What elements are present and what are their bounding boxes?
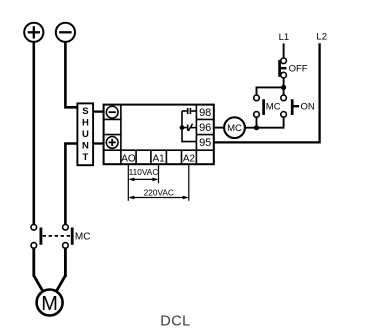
wire SHUNT to controller minus terminal [93,110,105,112]
wire terminal 96 to MC coil [214,127,224,129]
svg-text:110VAC: 110VAC [129,167,159,177]
junction node below MC auxiliary contact [254,125,259,130]
MC auxiliary holding contact [254,95,281,117]
contactor coil MC [224,117,245,138]
svg-text:M: M [41,293,58,315]
wire right contact to motor [56,248,65,292]
svg-text:ON: ON [301,102,315,113]
shunt resistor box SHUNT [77,103,93,165]
motor M [37,290,63,316]
dimension arrow 220VAC [129,187,189,199]
pushbutton ON normally open [281,95,315,117]
battery positive terminal + [24,23,43,42]
internal NC contact to 96 [182,124,196,131]
wire from + terminal down to MC main contact [32,42,35,225]
wire L1 down to OFF button [283,43,285,58]
dimension extension line below A1 [158,164,160,183]
MC main contact right pole [63,225,73,249]
svg-text:AO: AO [121,153,136,164]
dimension extension line below AO [127,164,129,201]
controller unit box U1 [104,105,214,165]
internal NO contact to 98 [182,108,196,114]
wire from SHUNT left side down to MC main contact [65,144,78,225]
internal relay common bus wire [182,111,196,142]
svg-text:L1: L1 [279,32,290,43]
wire L2 down and left to terminal 95 [214,43,320,142]
dimension arrow 110VAC [129,167,159,182]
wire left contact to motor [34,248,43,292]
svg-text:A2: A2 [183,153,196,164]
controller minus input terminal [106,106,118,118]
wire OFF to junction [283,78,285,97]
svg-text:220VAC: 220VAC [144,187,174,197]
wire from - terminal down and right to SHUNT [65,42,78,107]
svg-text:N: N [82,141,89,152]
svg-text:MC: MC [227,123,242,134]
svg-text:A1: A1 [152,153,165,164]
svg-text:S: S [82,106,88,117]
svg-text:U: U [82,129,89,140]
junction node on internal bus [180,125,185,130]
svg-text:98: 98 [199,107,211,119]
MC main contact left pole [31,225,41,249]
pushbutton OFF normally closed [280,58,308,78]
svg-text:OFF: OFF [289,63,308,74]
svg-text:MC: MC [75,232,91,243]
wire MC coil to ON branch [245,117,284,128]
mechanical link dashed between MC poles [43,235,71,237]
controller plus input terminal [106,137,118,149]
svg-text:H: H [82,118,89,129]
svg-text:DCL: DCL [160,314,191,330]
svg-text:96: 96 [199,122,211,134]
dimension extension line below A2 [188,164,190,201]
svg-text:L2: L2 [316,32,327,43]
wire SHUNT to controller plus terminal [93,142,105,144]
wire junction up to MC auxiliary contact [256,117,258,128]
wire MC contact top to OFF junction [257,87,284,95]
svg-text:95: 95 [199,137,211,149]
junction node below OFF button [281,85,286,90]
svg-text:MC: MC [266,102,281,113]
battery negative terminal - [56,23,75,42]
svg-text:T: T [82,152,88,163]
